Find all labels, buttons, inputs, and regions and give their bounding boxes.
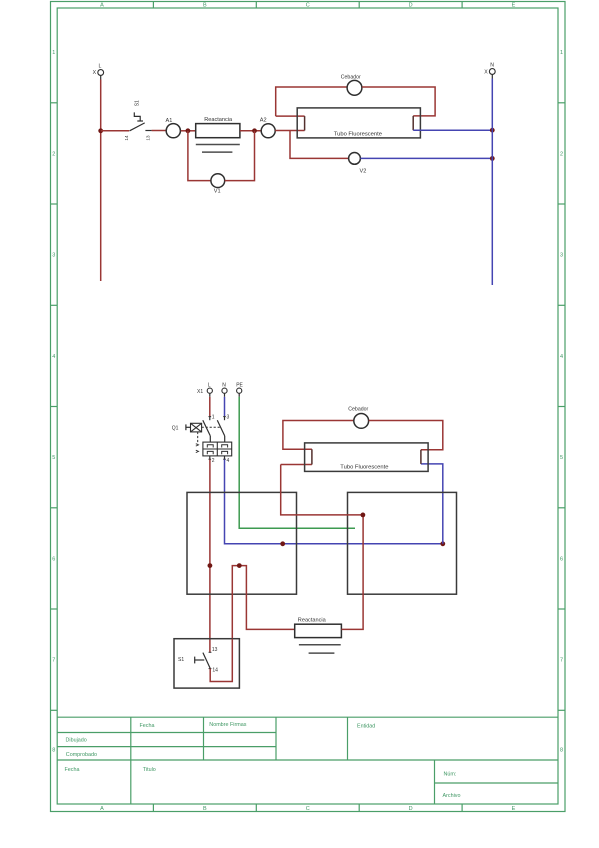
starter Cebador [347, 80, 362, 95]
svg-text:13: 13 [212, 647, 218, 653]
switch S1 [130, 112, 152, 130]
svg-text:3: 3 [52, 253, 55, 259]
terminal X1 L [207, 388, 212, 393]
wire switch to A1 [152, 130, 167, 132]
svg-text:N: N [222, 383, 226, 389]
svg-text:Cebador: Cebador [348, 406, 368, 412]
svg-text:S1: S1 [178, 657, 184, 663]
tube fluorescente T2 [305, 443, 429, 472]
wire reactancia to A2 [240, 130, 261, 132]
svg-text:Tubo Fluorescente: Tubo Fluorescente [334, 132, 382, 138]
wire S1 return loop in box [232, 566, 294, 639]
svg-text:Fecha: Fecha [65, 767, 80, 773]
breaker Q1 [186, 416, 232, 459]
svg-text:A: A [100, 806, 104, 812]
top band ticks [152, 2, 154, 9]
wire cebador right to electrode [369, 421, 443, 450]
svg-text:2: 2 [52, 151, 55, 157]
CIRCUIT1 [93, 62, 496, 285]
ammeter A1 [166, 124, 180, 138]
svg-text:4: 4 [227, 458, 230, 464]
wire A2 to tube electrode [275, 130, 304, 132]
wire L rail [100, 75, 102, 79]
wire L Q1 to S1 [209, 460, 211, 653]
wire PE green [238, 393, 240, 397]
svg-text:1: 1 [212, 415, 215, 421]
svg-text:PE: PE [236, 383, 243, 389]
svg-text:V2: V2 [360, 169, 367, 175]
mechanical link dashed [202, 426, 220, 428]
svg-text:A: A [100, 3, 104, 9]
svg-text:6: 6 [52, 556, 55, 562]
junction box right [348, 492, 457, 594]
tube fluorescente T1 [297, 108, 420, 138]
svg-text:Comprobado: Comprobado [66, 752, 97, 758]
bottom band ticks [152, 804, 154, 812]
svg-text:D: D [409, 3, 413, 9]
pole L blade [203, 420, 211, 436]
svg-text:E: E [512, 3, 516, 9]
svg-text:4: 4 [52, 354, 55, 360]
wire A1 to reactancia [181, 130, 196, 132]
wire N rail [491, 74, 493, 78]
pole N blade [217, 420, 224, 436]
svg-text:4: 4 [560, 354, 563, 360]
wire electrode top pin / cebador left [283, 421, 354, 450]
svg-text:Nombre Firmas: Nombre Firmas [209, 722, 246, 728]
wire blue up to tube right electrode [421, 464, 443, 544]
svg-text:1: 1 [560, 50, 563, 56]
wire to switch [101, 130, 130, 132]
junction box left [187, 492, 297, 594]
right band ticks [558, 102, 565, 104]
node junction A2-side [252, 128, 257, 133]
wire V2 to N (blue) [360, 157, 492, 159]
wire right electrode bottom to N (blue) [413, 129, 492, 131]
wire N down to Q1 [224, 393, 226, 397]
voltmeter V1 [211, 174, 225, 188]
svg-text:A1: A1 [166, 118, 173, 124]
CIRCUIT2 [172, 383, 457, 688]
switch S1 lower [195, 652, 212, 668]
svg-text:Reactancia: Reactancia [298, 618, 327, 624]
svg-text:14: 14 [212, 667, 218, 673]
release box [203, 442, 232, 456]
switch box S1 [174, 639, 239, 688]
node junction N top [490, 128, 495, 133]
blade to box left [209, 436, 211, 442]
electrode 2 right inner edge [420, 450, 422, 464]
node junction blue corner [440, 541, 445, 546]
wire cebador to right electrode [362, 87, 435, 116]
wire cebador branch left [276, 87, 347, 116]
svg-text:X: X [484, 70, 488, 76]
node junction blue mid [280, 541, 285, 546]
svg-text:V1: V1 [214, 189, 221, 195]
pin 2 stub [209, 456, 211, 460]
electrode 2 left inner edge [311, 449, 313, 464]
svg-text:S1: S1 [135, 100, 141, 106]
wire L down to Q1 [209, 393, 211, 397]
svg-text:8: 8 [52, 748, 55, 754]
svg-text:X1: X1 [197, 389, 203, 395]
node junction A1-side [186, 128, 191, 133]
actuator box [191, 423, 202, 432]
wire electrode top pin left [276, 115, 305, 117]
release arrows [196, 444, 199, 446]
wire S1 pin14 return [210, 639, 232, 682]
svg-text:B: B [203, 3, 207, 9]
svg-text:2: 2 [560, 151, 563, 157]
svg-text:7: 7 [52, 658, 55, 664]
svg-text:1: 1 [52, 50, 55, 56]
node junction L in box [208, 563, 213, 568]
electrode right inner edge [412, 116, 414, 130]
svg-text:A2: A2 [260, 117, 267, 123]
svg-text:E: E [512, 806, 516, 812]
svg-text:5: 5 [560, 455, 563, 461]
svg-text:L: L [208, 383, 211, 389]
svg-text:D: D [409, 806, 413, 812]
svg-text:3: 3 [560, 253, 563, 259]
release link dashed [197, 432, 199, 444]
reactancia L2 [295, 618, 342, 654]
starter Cebador 2 [354, 414, 369, 429]
svg-text:Q1: Q1 [172, 425, 179, 431]
svg-text:C: C [306, 3, 310, 9]
svg-text:Cebador: Cebador [341, 74, 361, 80]
svg-text:Archivo: Archivo [443, 793, 461, 799]
release symbols [207, 445, 227, 455]
TITLEBLOCK [57, 717, 558, 804]
svg-text:Tubo Fluorescente: Tubo Fluorescente [340, 465, 388, 471]
left band ticks [51, 102, 58, 104]
svg-text:14: 14 [124, 135, 129, 141]
svg-text:Entidad: Entidad [357, 724, 375, 730]
svg-text:2: 2 [212, 458, 215, 464]
wire V2 branch red [290, 131, 349, 159]
node junction on loop [237, 563, 242, 568]
svg-text:B: B [203, 806, 207, 812]
svg-text:8: 8 [560, 748, 563, 754]
svg-text:Núm:: Núm: [444, 771, 457, 777]
electrode left inner edge [304, 116, 306, 130]
svg-text:Titulo: Titulo [143, 767, 156, 773]
wire reactancia to tube left electrode [281, 465, 363, 630]
svg-text:N: N [490, 62, 494, 68]
svg-text:7: 7 [560, 658, 563, 664]
wire N Q1 down and across (blue) [225, 460, 443, 544]
node junction reactancia corner [361, 513, 366, 518]
terminal X1 PE [237, 388, 242, 393]
wire V1 branch right [225, 131, 255, 181]
svg-text:3: 3 [227, 415, 230, 421]
pin 3 stub [224, 416, 226, 420]
reactancia L1 (ballast) [196, 117, 240, 152]
pin 1 stub [209, 416, 211, 420]
ammeter A2 [261, 124, 275, 138]
blade to box right [224, 436, 226, 442]
voltmeter V2 [349, 153, 361, 165]
wire V1 branch left [188, 131, 211, 181]
svg-text:6: 6 [560, 556, 563, 562]
svg-text:C: C [306, 806, 310, 812]
node junction N lower [490, 156, 495, 161]
actuator handle [185, 424, 187, 430]
svg-text:L: L [99, 63, 102, 69]
wire electrode bottom pin left [281, 464, 312, 466]
terminal X1 N [222, 388, 227, 393]
svg-text:Dibujado: Dibujado [66, 738, 87, 744]
svg-text:13: 13 [145, 135, 150, 141]
svg-text:Reactancia: Reactancia [204, 117, 233, 123]
node junction L [98, 128, 103, 133]
svg-text:5: 5 [52, 455, 55, 461]
svg-text:Fecha: Fecha [140, 723, 155, 729]
pin 4 stub [224, 456, 226, 460]
terminal X (N) [484, 62, 495, 75]
svg-text:X: X [93, 70, 97, 76]
terminal X (L) [93, 63, 104, 76]
